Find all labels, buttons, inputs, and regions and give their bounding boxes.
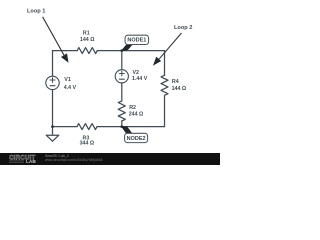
annotation Loop 2 arrow [153, 33, 182, 66]
voltage source V1 [46, 76, 59, 89]
svg-text:www.circuitlab.com/c/3d48q7fd9: www.circuitlab.com/c/3d48q7fd9y56k8 [45, 158, 103, 162]
svg-text:R4: R4 [172, 79, 179, 85]
svg-text:344 Ω: 344 Ω [80, 140, 95, 146]
wire top-left segment [53, 50, 78, 52]
svg-text:144 Ω: 144 Ω [80, 37, 95, 43]
svg-text:NODE2: NODE2 [127, 136, 146, 142]
svg-text:Loop 2: Loop 2 [174, 25, 192, 31]
node NODE2 flag [122, 127, 148, 143]
svg-text:4.4 V: 4.4 V [64, 85, 77, 91]
voltage source V2 [115, 70, 128, 83]
junction dot at NODE1 [120, 49, 123, 52]
wire bottom-right segment [97, 126, 164, 128]
svg-text:Sean39 / Lab_2: Sean39 / Lab_2 [45, 154, 69, 158]
resistor R2 [118, 101, 125, 121]
wire bottom-left segment [53, 126, 78, 128]
svg-text:144 Ω: 144 Ω [172, 86, 187, 92]
svg-text:V1: V1 [64, 77, 71, 83]
wire left branch top [52, 51, 54, 77]
junction dot at NODE2 [120, 125, 123, 128]
svg-text:NODE1: NODE1 [127, 38, 146, 44]
watermark CircuitLab logo [9, 154, 36, 165]
resistor R4 [161, 75, 168, 95]
wire middle bottom [121, 121, 123, 127]
node NODE1 flag [122, 35, 149, 50]
wire right branch top [164, 51, 166, 76]
svg-text:Loop 1: Loop 1 [27, 8, 45, 14]
svg-text:244 Ω: 244 Ω [129, 112, 144, 118]
wire right branch bottom [164, 96, 166, 126]
wire left branch bottom [52, 90, 54, 127]
svg-text:V2: V2 [133, 70, 140, 76]
annotation Loop 1 arrow [43, 17, 69, 63]
svg-text:R2: R2 [129, 105, 136, 111]
wire middle branch top [121, 51, 123, 70]
wire middle below V2 [121, 83, 123, 101]
svg-text:LAB: LAB [26, 159, 36, 165]
ground [46, 127, 59, 142]
svg-text:R1: R1 [83, 31, 90, 37]
svg-text:1.44 V: 1.44 V [132, 76, 148, 82]
wire top-right segment [97, 50, 164, 52]
resistor R1 [77, 48, 97, 54]
junction dot at ground node [51, 125, 54, 128]
watermark bar [0, 153, 220, 165]
resistor R3 [77, 124, 97, 130]
